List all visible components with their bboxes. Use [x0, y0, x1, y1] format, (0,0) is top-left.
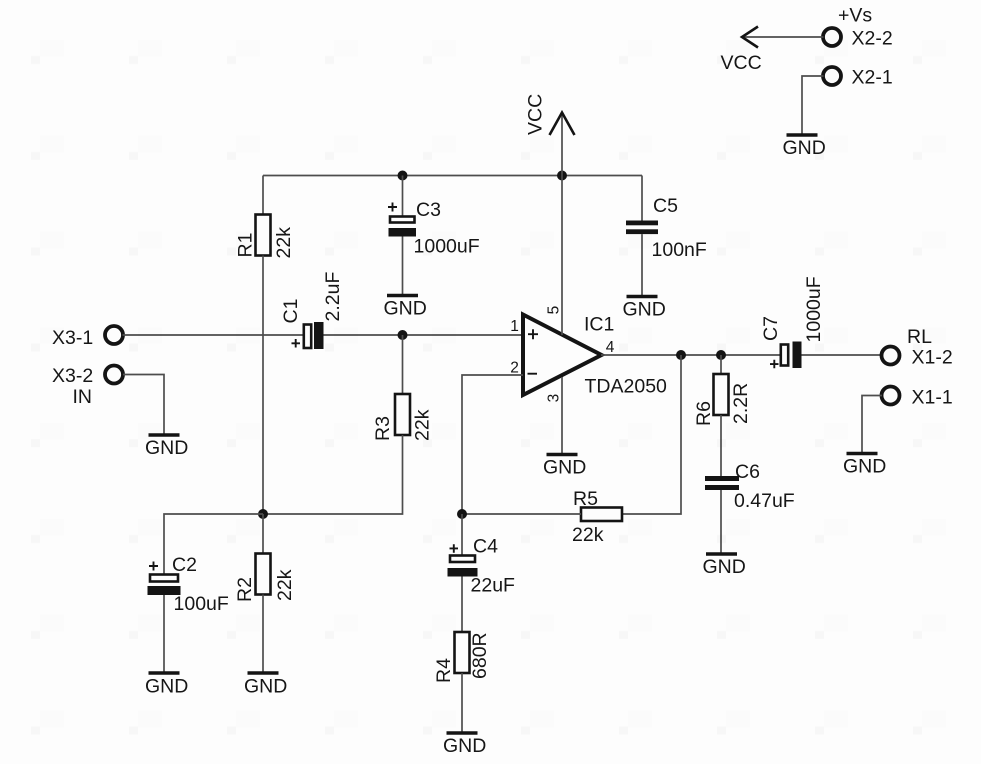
svg-text:22k: 22k — [572, 524, 604, 546]
svg-text:2: 2 — [510, 360, 519, 377]
ground C2 — [145, 673, 188, 698]
svg-text:GND: GND — [244, 676, 287, 698]
wire R3 top lead — [402, 335, 404, 394]
svg-text:GND: GND — [145, 676, 188, 698]
svg-text:C6: C6 — [735, 461, 760, 483]
svg-text:100nF: 100nF — [652, 239, 707, 261]
ground C5 — [623, 297, 666, 321]
wire bias node to C2 — [164, 514, 263, 574]
resistor R1 — [235, 215, 296, 259]
svg-text:1000uF: 1000uF — [414, 236, 480, 258]
wire C3 bottom lead — [402, 237, 404, 295]
wire R2 top lead — [262, 514, 264, 554]
wire C4 to R4 — [461, 577, 463, 633]
svg-text:C2: C2 — [172, 554, 197, 576]
terminal X3-1 — [52, 326, 123, 349]
svg-text:2.2uF: 2.2uF — [322, 272, 344, 322]
VCC power arrow — [525, 94, 575, 176]
capacitor C7 — [760, 276, 825, 368]
svg-text:X1-1: X1-1 — [912, 387, 953, 409]
wire R2 bottom lead — [262, 595, 264, 672]
svg-text:R5: R5 — [573, 488, 598, 510]
wire R4 bottom lead — [461, 673, 463, 732]
svg-text:X3-2: X3-2 — [52, 365, 93, 387]
svg-text:100uF: 100uF — [174, 593, 229, 615]
wire R5 to feedback node — [462, 513, 581, 515]
wire C1 to op-amp pin1 — [324, 334, 524, 336]
svg-text:1000uF: 1000uF — [803, 276, 825, 342]
svg-text:4: 4 — [606, 339, 615, 356]
svg-text:X2-1: X2-1 — [852, 67, 893, 89]
svg-text:C3: C3 — [416, 199, 441, 221]
svg-text:GND: GND — [783, 137, 826, 159]
wire pin2 feedback lead — [462, 375, 523, 514]
svg-text:VCC: VCC — [721, 52, 762, 74]
ground X1-1 — [843, 454, 886, 478]
ground R4 — [443, 733, 486, 757]
svg-text:2.2R: 2.2R — [730, 383, 752, 424]
node: feedback junction — [457, 509, 467, 519]
resistor R4 — [433, 632, 491, 683]
node: output junction feedback — [676, 350, 686, 360]
terminal X1-1 — [882, 387, 953, 409]
wire C6 bottom lead — [720, 490, 722, 553]
svg-text:GND: GND — [843, 456, 886, 478]
svg-text:680R: 680R — [469, 632, 491, 679]
node: output junction R6 — [716, 350, 726, 360]
svg-text:C4: C4 — [473, 536, 498, 558]
node: junction top rail / C3 — [398, 171, 408, 181]
svg-text:C1: C1 — [280, 299, 302, 324]
svg-text:IC1: IC1 — [584, 314, 614, 336]
VCC arrow from X2-2 — [721, 27, 824, 75]
top supply rail wire — [263, 175, 642, 177]
svg-text:1: 1 — [510, 318, 519, 335]
terminal X2-1 — [823, 67, 893, 89]
node: junction top rail / VCC / pin5 — [557, 171, 567, 181]
terminal X3-2 — [52, 365, 123, 408]
svg-text:+Vs: +Vs — [838, 5, 872, 27]
svg-text:22k: 22k — [412, 409, 434, 441]
wire C3 top lead — [402, 176, 404, 217]
wire top rail to C5 — [641, 176, 643, 221]
resistor R3 — [372, 394, 434, 441]
svg-text:R3: R3 — [372, 416, 394, 441]
node: bias junction on input — [398, 330, 408, 340]
ground pin3 — [543, 455, 586, 479]
capacitor C1 — [280, 272, 344, 349]
wire R1 top lead — [262, 176, 264, 215]
svg-text:C5: C5 — [653, 195, 678, 217]
op-amp IC1 TDA2050 — [510, 306, 667, 403]
ground C6 — [703, 554, 746, 578]
svg-text:C7: C7 — [760, 316, 782, 341]
wire R3 bottom to bias rail — [263, 435, 403, 514]
resistor R5 — [572, 488, 622, 546]
wire feedback vertical from output — [622, 355, 681, 514]
capacitor C2 — [148, 554, 229, 615]
svg-text:IN: IN — [73, 386, 93, 408]
wire pin3 to ground — [561, 377, 563, 453]
wire X3-2 to ground — [123, 375, 164, 434]
svg-text:22k: 22k — [273, 227, 295, 259]
svg-text:TDA2050: TDA2050 — [585, 376, 668, 398]
resistor R6 — [693, 374, 752, 426]
wire input X3-1 to C1 — [123, 334, 304, 336]
terminal X2-2 — [823, 5, 893, 50]
svg-text:GND: GND — [623, 299, 666, 321]
terminal X1-2 — [882, 326, 953, 369]
wire X2-1 to ground — [802, 76, 824, 134]
svg-text:GND: GND — [443, 735, 486, 757]
wire R6 to C6 — [720, 415, 722, 476]
ground C3 — [384, 296, 427, 320]
resistor R2 — [234, 554, 296, 603]
svg-text:GND: GND — [703, 556, 746, 578]
svg-text:R2: R2 — [234, 577, 256, 602]
wire C2 bottom lead — [163, 595, 165, 672]
svg-text:0.47uF: 0.47uF — [734, 490, 795, 512]
wire C7 to X1-2 — [802, 354, 883, 356]
svg-text:GND: GND — [384, 298, 427, 320]
capacitor C4 — [448, 536, 516, 597]
wire output pin4 — [601, 354, 781, 356]
capacitor C5 — [626, 195, 707, 261]
svg-text:RL: RL — [907, 326, 932, 348]
svg-text:5: 5 — [546, 306, 563, 315]
wire X1-1 to ground — [862, 396, 882, 453]
svg-text:X2-2: X2-2 — [852, 28, 893, 50]
wire pin5 from supply — [561, 176, 563, 336]
wire C5 bottom lead — [641, 234, 643, 295]
svg-text:VCC: VCC — [525, 94, 547, 135]
svg-text:R6: R6 — [693, 401, 715, 426]
capacitor C6 — [705, 461, 795, 512]
wire R6 top lead — [720, 355, 722, 374]
svg-text:R1: R1 — [235, 233, 257, 258]
ground R2 — [244, 673, 287, 698]
capacitor C3 — [388, 199, 480, 258]
svg-text:3: 3 — [546, 394, 563, 403]
svg-text:22k: 22k — [274, 569, 296, 601]
wire C4 top lead — [461, 514, 463, 555]
wire R1 bottom to bias node — [262, 256, 264, 515]
svg-text:R4: R4 — [433, 658, 455, 683]
node: bias divider junction — [258, 509, 268, 519]
svg-text:X3-1: X3-1 — [52, 327, 93, 349]
ground X2-1 — [783, 135, 826, 159]
ground X3-2 — [145, 435, 188, 459]
svg-text:X1-2: X1-2 — [912, 347, 953, 369]
svg-text:GND: GND — [145, 437, 188, 459]
svg-text:22uF: 22uF — [471, 575, 516, 597]
svg-text:GND: GND — [543, 457, 586, 479]
